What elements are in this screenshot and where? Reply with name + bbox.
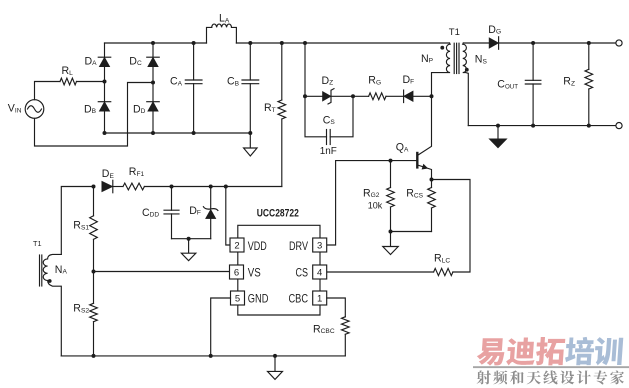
pin 3 DRV box: [313, 238, 327, 252]
node COUT top: [531, 41, 535, 45]
svg-text:DF: DF: [189, 205, 201, 217]
svg-text:DF: DF: [403, 74, 415, 86]
node clamp top: [303, 41, 307, 45]
diode DF: [404, 91, 414, 102]
capacitor CDD: [171, 187, 173, 211]
node bridge bottom left: [103, 131, 107, 135]
svg-text:DZ: DZ: [322, 75, 334, 87]
svg-text:VDD: VDD: [248, 239, 267, 253]
node RG2 top: [389, 159, 393, 163]
svg-text:1nF: 1nF: [320, 146, 337, 157]
svg-text:CDD: CDD: [142, 207, 159, 219]
resistor RCBC: [342, 317, 350, 335]
pin 4 CS box: [313, 265, 327, 279]
diode DB: [99, 102, 110, 112]
resistor RG2: [390, 161, 392, 188]
wire GND pin to rail: [211, 298, 231, 356]
polarity dot aux: [48, 279, 52, 283]
ground below RG2: [390, 232, 392, 247]
wire RLC to CS pin: [327, 271, 434, 273]
node gnd stub: [187, 237, 191, 241]
svg-text:CS: CS: [323, 114, 336, 126]
node VS junction: [92, 270, 96, 274]
ground bottom rail: [274, 356, 276, 372]
wire RCS bottom to RG2 bottom: [391, 231, 432, 233]
resistor RG: [369, 93, 386, 100]
svg-text:RG: RG: [368, 75, 381, 87]
svg-text:T1: T1: [33, 239, 42, 248]
svg-text:CA: CA: [170, 76, 183, 88]
wire VS line: [94, 271, 230, 273]
resistor RT: [281, 43, 283, 100]
wire primary node to collector: [418, 96, 431, 155]
polarity dot secondary: [465, 68, 469, 72]
node DA-DB junction: [103, 80, 107, 84]
svg-text:VIN: VIN: [8, 103, 22, 115]
node RT top: [280, 41, 284, 45]
watermark logo text: [473, 337, 629, 385]
wire bridge right column: [152, 43, 154, 133]
svg-text:RF1: RF1: [129, 166, 145, 178]
svg-text:RZ: RZ: [563, 76, 575, 88]
node secondary gnd: [496, 124, 500, 128]
terminal output plus: [616, 40, 622, 46]
zener DF vertical: [210, 187, 212, 209]
node bridge bottom mid: [151, 131, 155, 135]
node emitter: [430, 178, 434, 182]
transistor QA base bar: [416, 153, 418, 167]
diode DC: [148, 57, 159, 66]
svg-text:UCC28722: UCC28722: [257, 208, 299, 220]
aux winding NA: [43, 254, 61, 356]
svg-text:3: 3: [317, 241, 322, 252]
wire RF1 to RT bottom: [144, 186, 281, 188]
node COUT bottom: [531, 124, 535, 128]
ground below CDD: [188, 239, 190, 254]
svg-text:RCBC: RCBC: [313, 323, 335, 335]
node RZ top: [587, 41, 591, 45]
ground secondary: [497, 126, 499, 140]
wire RL to bridge: [77, 81, 105, 83]
wire bridge left column: [104, 43, 106, 133]
wire clamp left drop: [304, 43, 306, 96]
svg-text:RCS: RCS: [406, 188, 423, 200]
svg-text:CB: CB: [227, 76, 240, 88]
inductor LA riser and bumps: [207, 27, 212, 43]
node CA bottom: [192, 131, 196, 135]
svg-text:4: 4: [317, 268, 322, 279]
node CDD top: [170, 185, 174, 189]
svg-text:DB: DB: [84, 103, 97, 115]
svg-text:10k: 10k: [368, 201, 383, 212]
resistor RLC: [434, 268, 453, 275]
svg-text:NP: NP: [421, 53, 434, 65]
capacitor CB: [249, 43, 251, 80]
node CB bottom: [248, 131, 252, 135]
resistor RS2: [93, 272, 95, 304]
svg-text:RLC: RLC: [434, 253, 450, 265]
svg-text:DRV: DRV: [289, 239, 308, 253]
node RG2 bottom: [389, 230, 393, 234]
svg-text:T1: T1: [449, 27, 460, 38]
polarity dot primary: [440, 46, 444, 50]
node CB top: [248, 41, 252, 45]
node bridge top right: [151, 41, 155, 45]
resistor RF1: [123, 183, 144, 190]
wire RG to DF: [386, 95, 404, 97]
diode DA: [99, 57, 110, 66]
diode DZ zener: [323, 92, 332, 102]
resistor RZ: [588, 43, 590, 69]
svg-text:GND: GND: [248, 292, 269, 306]
terminal output minus: [616, 123, 622, 129]
svg-text:DG: DG: [488, 24, 501, 36]
node clamp right: [351, 94, 355, 98]
node RS2 bottom: [92, 354, 96, 358]
svg-text:DC: DC: [129, 55, 142, 67]
transformer primary winding: [432, 43, 451, 96]
diode DE: [102, 181, 113, 192]
wire DF to primary node: [413, 95, 431, 97]
node RZ bottom: [587, 124, 591, 128]
svg-text:RS2: RS2: [73, 303, 89, 315]
transformer secondary winding: [463, 43, 469, 126]
svg-text:QA: QA: [396, 142, 409, 154]
wire VIN top to RL: [35, 82, 61, 100]
node DF2 top: [209, 185, 213, 189]
pin 5 GND box: [231, 291, 245, 305]
node RS1 top: [92, 185, 96, 189]
capacitor COUT: [532, 43, 534, 80]
svg-text:LA: LA: [219, 13, 230, 25]
svg-text:VS: VS: [248, 266, 261, 280]
pin 6 VS box: [230, 265, 244, 279]
wire secondary top to DG: [463, 42, 489, 44]
pin 2 VDD box: [230, 238, 244, 252]
wire DG to out+: [499, 42, 616, 44]
wire top rail left: [105, 42, 207, 44]
wire DE to RF1: [113, 186, 123, 188]
transistor QA emitter: [418, 165, 431, 179]
svg-text:RG2: RG2: [363, 187, 380, 199]
wire DZ to node: [331, 95, 353, 97]
resistor RCS: [431, 180, 433, 188]
svg-text:DE: DE: [102, 168, 115, 180]
svg-text:NS: NS: [475, 54, 488, 66]
node clamp left: [303, 94, 307, 98]
svg-text:2: 2: [234, 241, 239, 252]
svg-text:NA: NA: [55, 264, 68, 276]
wire to DZ: [305, 95, 323, 97]
wire CDD DF bottoms: [172, 238, 211, 240]
diode DG: [489, 38, 499, 49]
node gnd symbol rail: [273, 354, 277, 358]
node VDD branch: [224, 185, 228, 189]
svg-text:6: 6: [234, 268, 239, 279]
resistor RL: [60, 78, 77, 85]
wire DE row left drop: [61, 187, 93, 255]
svg-text:COUT: COUT: [497, 79, 518, 91]
transformer core: [453, 43, 455, 73]
capacitor CA: [193, 43, 195, 80]
capacitor CS loop: [305, 96, 327, 137]
diode DD: [148, 102, 159, 112]
wire VDD branch: [226, 187, 230, 246]
svg-text:DA: DA: [85, 55, 98, 67]
svg-text:1: 1: [317, 294, 322, 305]
wire bottom rail: [61, 355, 345, 357]
IC body: [238, 225, 320, 238]
svg-text:5: 5: [235, 294, 240, 305]
wire emitter to RLC branch: [432, 180, 471, 273]
node GND rail: [209, 354, 213, 358]
wire node to RG: [353, 95, 369, 97]
svg-text:DD: DD: [133, 103, 146, 115]
resistor RS1: [93, 187, 95, 216]
aux core: [39, 255, 41, 286]
ground below CB: [249, 133, 251, 148]
wire secondary bottom rail: [468, 125, 616, 127]
node primary switch: [430, 94, 434, 98]
svg-text:RS1: RS1: [73, 220, 89, 232]
wire top rail mid: [236, 42, 449, 44]
node CA top: [192, 41, 196, 45]
svg-text:RL: RL: [62, 65, 74, 77]
svg-text:RT: RT: [264, 102, 276, 114]
svg-text:CBC: CBC: [289, 292, 309, 306]
ac source VIN circle: [25, 100, 44, 119]
pin 1 CBC box: [313, 291, 327, 305]
wire VIN bottom return: [35, 83, 154, 147]
wire DRV to base: [327, 161, 418, 245]
node DC-DD junction: [151, 81, 155, 85]
wire bridge bottom rail: [105, 132, 251, 134]
wire CBC pin to RCBC: [327, 298, 346, 317]
svg-text:CS: CS: [296, 266, 309, 280]
